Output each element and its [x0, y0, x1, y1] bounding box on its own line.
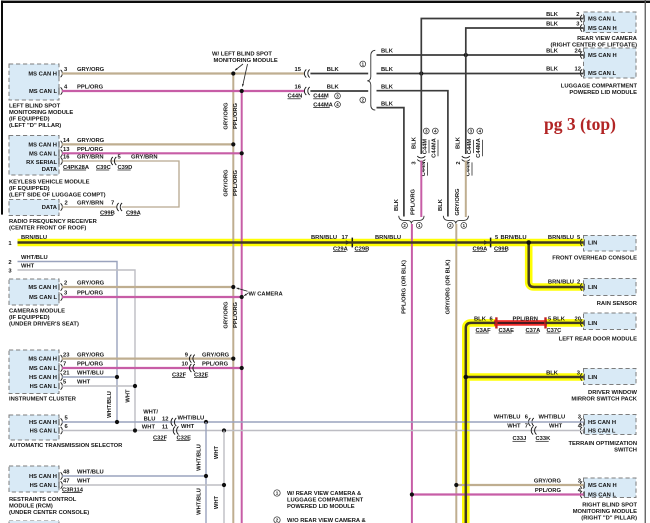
label C32F ATS	[153, 435, 168, 441]
module automatic transmission selector box	[9, 415, 59, 440]
label BLK 3 DWMSP	[546, 371, 581, 377]
wire WHT/BLU vertical x206	[205, 422, 207, 523]
svg-text:WHT: WHT	[77, 380, 91, 386]
label WHT wire3	[21, 263, 35, 269]
connector label C44N	[288, 94, 303, 100]
svg-text:21: 21	[63, 371, 70, 377]
brace option split	[367, 50, 375, 110]
label BLK row B	[381, 67, 394, 73]
svg-text:(IF EQUIPPED): (IF EQUIPPED)	[9, 315, 50, 321]
svg-text:2: 2	[576, 12, 579, 18]
svg-text:MS CAN H: MS CAN H	[28, 72, 57, 78]
label WHT/BLU ATS2	[178, 416, 205, 422]
svg-text:(CENTER FRONT OF ROOF): (CENTER FRONT OF ROOF)	[9, 225, 86, 231]
svg-text:TERRAIN OPTIMIZATION: TERRAIN OPTIMIZATION	[569, 441, 637, 447]
label GRY/ORG vertical low	[224, 301, 230, 329]
connector label C44MA	[313, 102, 340, 109]
svg-text:GRY/ORG: GRY/ORG	[77, 352, 105, 358]
svg-text:(IF EQUIPPED): (IF EQUIPPED)	[9, 186, 50, 192]
junction row B x421.8	[419, 71, 423, 75]
label pin 2 rain	[577, 280, 580, 286]
svg-text:7: 7	[63, 362, 66, 368]
label pin 5 C39D	[118, 155, 122, 161]
module left blind spot monitoring module box	[9, 64, 59, 100]
svg-text:MIRROR SWITCH PACK: MIRROR SWITCH PACK	[571, 397, 637, 403]
svg-text:2: 2	[577, 280, 580, 286]
page right border	[645, 0, 646, 523]
wire PPL/BRN highlighted red band	[494, 320, 547, 326]
module RBSM pin MS CAN L	[580, 491, 616, 499]
svg-text:BLK: BLK	[381, 84, 394, 90]
label pin 23	[63, 352, 70, 358]
label pin 16 KVM	[63, 155, 70, 161]
module LCPLM pin MS CAN L	[580, 69, 616, 77]
wire 3 WHT	[18, 270, 136, 431]
module TOS caption	[569, 441, 637, 454]
svg-text:AUTOMATIC TRANSMISSION SELECTO: AUTOMATIC TRANSMISSION SELECTOR	[9, 443, 123, 449]
label GRY/BRN after C39D	[131, 155, 158, 161]
wire PPL/ORG vertical bus	[241, 91, 243, 523]
svg-text:WHT: WHT	[214, 445, 220, 459]
connector C32 arcs ATS L	[173, 427, 178, 435]
label pin 6 TOS	[525, 414, 529, 420]
junction PPL/ORG at IC	[240, 366, 244, 370]
svg-text:GRY/ORG: GRY/ORG	[224, 169, 230, 197]
module RBSM caption	[573, 503, 638, 522]
label wire number 3	[8, 269, 12, 275]
svg-text:23: 23	[63, 352, 70, 358]
label pin 3 CAM	[64, 291, 68, 297]
svg-text:15: 15	[295, 67, 302, 73]
connector tick C99 yellow	[484, 238, 491, 248]
module LBSMM pin MS CAN H	[28, 70, 62, 78]
junction WHT at RCM	[222, 483, 226, 487]
svg-text:WHT/BLU: WHT/BLU	[539, 414, 566, 420]
label C99A yellow	[473, 246, 489, 252]
junction PPL/ORG at KVM	[240, 151, 244, 155]
connector C33 arcs H	[529, 418, 534, 426]
svg-text:SWITCH: SWITCH	[614, 448, 637, 454]
svg-text:BLK: BLK	[327, 85, 340, 91]
svg-text:WHT/BLU: WHT/BLU	[21, 255, 48, 261]
module TOS pin HS CAN L	[580, 427, 615, 435]
wire BLK LIN vertical core	[466, 323, 496, 523]
label PPL/ORG RBSM	[535, 488, 562, 494]
junction GRY/ORG at CAM	[231, 285, 235, 289]
svg-text:MS CAN L: MS CAN L	[588, 493, 616, 499]
svg-text:DATA: DATA	[42, 167, 58, 173]
svg-text:7: 7	[525, 423, 528, 429]
svg-text:GRY/ORG: GRY/ORG	[77, 67, 105, 73]
svg-text:GRY/ORG: GRY/ORG	[534, 479, 562, 485]
wire TOS HS CAN H right	[528, 421, 583, 423]
label WHT 11	[142, 424, 169, 430]
wire BLK to LRDM core	[546, 322, 584, 325]
module LRDM pin LIN	[580, 319, 597, 327]
svg-text:WHT/BLU: WHT/BLU	[77, 470, 104, 476]
label BLK row D	[381, 101, 394, 107]
wire ATS HS CAN L WHT	[62, 430, 531, 432]
label WHT/BLU RCM	[77, 470, 104, 476]
module restraints control module box	[9, 466, 59, 492]
svg-text:WHT/BLU: WHT/BLU	[196, 444, 202, 471]
svg-text:MS CAN H: MS CAN H	[588, 26, 617, 32]
label pin 3	[576, 22, 580, 28]
label pin 3	[64, 67, 68, 73]
wire CAM MS CAN H GRY/ORG	[62, 286, 233, 288]
label PPL/ORG vertical mid	[233, 169, 239, 196]
svg-text:HS CAN L: HS CAN L	[588, 429, 616, 435]
label WHT rot x218 a	[214, 445, 220, 459]
junction PPL/ORG at CAM	[240, 295, 244, 299]
wire GRY/ORG (OR BLK) vertical	[455, 224, 457, 523]
svg-text:POWERED LID MODULE: POWERED LID MODULE	[287, 504, 355, 510]
junction PPL/ORG bus at LBSMM L	[240, 89, 244, 93]
svg-text:17: 17	[342, 235, 348, 241]
svg-text:WHT/BLU: WHT/BLU	[178, 416, 205, 422]
module IC pin MS CAN H	[28, 355, 62, 363]
label C39D	[118, 165, 133, 171]
svg-text:12: 12	[575, 67, 581, 73]
wire BRN/BLU branch to rain sensor core	[529, 243, 584, 288]
wire IC HS CAN L WHT	[62, 385, 135, 387]
svg-text:(IF EQUIPPED): (IF EQUIPPED)	[9, 117, 50, 123]
label PPL/ORG CAM	[77, 291, 104, 297]
svg-text:WHT/: WHT/	[143, 410, 158, 416]
label wire number 2	[8, 260, 11, 266]
junction WHT/BLU x206	[204, 420, 208, 424]
label pin 5 yellow	[495, 235, 499, 241]
svg-text:BRN/BLU: BRN/BLU	[21, 235, 47, 241]
label GRY/ORG IC	[77, 352, 105, 358]
label WHT RCM	[77, 479, 91, 485]
wire IC HS CAN H WHT/BLU	[62, 376, 117, 378]
svg-text:GRY/ORG: GRY/ORG	[224, 102, 230, 130]
label C44MA V2	[476, 128, 483, 158]
svg-text:MONITORING MODULE: MONITORING MODULE	[573, 509, 637, 515]
label C3AE	[499, 328, 515, 334]
module FOC pin LIN	[580, 239, 597, 247]
svg-text:PPL/ORG (OR BLK): PPL/ORG (OR BLK)	[401, 260, 407, 314]
label WHT IC	[77, 380, 91, 386]
connector C33 arcs L	[531, 427, 536, 435]
connector C32 arcs ATS H	[171, 418, 176, 426]
svg-text:CAMERAS MODULE: CAMERAS MODULE	[9, 308, 65, 314]
svg-text:LUGGAGE COMPARTMENT: LUGGAGE COMPARTMENT	[287, 498, 364, 504]
connector label C44M	[313, 93, 340, 100]
wire KVM MS CAN H GRY/ORG	[62, 143, 233, 145]
svg-text:WHT: WHT	[142, 424, 156, 430]
label WHT rot x218 b	[214, 495, 220, 509]
label WHT/BLU IC	[77, 371, 104, 377]
svg-text:RESTRAINTS CONTROL: RESTRAINTS CONTROL	[9, 497, 77, 503]
label GRY/BRN KVM	[77, 155, 104, 161]
svg-text:BRN/BLU: BRN/BLU	[311, 235, 337, 241]
wire TOS HS CAN L right	[531, 430, 584, 432]
svg-text:48: 48	[63, 470, 70, 476]
module DWMSP pin LIN	[580, 373, 597, 381]
svg-text:WHT: WHT	[126, 389, 132, 403]
svg-text:RIGHT BLIND SPOT: RIGHT BLIND SPOT	[582, 503, 637, 509]
svg-text:13: 13	[63, 147, 70, 153]
wire BLK to RVC pin2	[421, 19, 583, 74]
svg-text:MS CAN L: MS CAN L	[29, 366, 57, 372]
label pin 16	[295, 85, 302, 91]
svg-text:GRY/ORG: GRY/ORG	[77, 138, 105, 144]
label pin 2 V2	[456, 161, 462, 164]
label pin 24	[575, 49, 582, 55]
label C32E IC	[194, 372, 209, 378]
svg-text:MS CAN H: MS CAN H	[588, 483, 617, 489]
label C32E ATS	[177, 435, 192, 441]
svg-text:HS CAN L: HS CAN L	[30, 483, 58, 489]
label BLK row15	[327, 67, 340, 73]
wire ATS HS CAN H WHT/BLU	[62, 421, 529, 423]
svg-text:GRY/ORG (OR BLK): GRY/ORG (OR BLK)	[446, 260, 452, 315]
label GRY/ORG	[77, 67, 105, 73]
module CAM caption	[9, 308, 79, 327]
svg-text:MS CAN H: MS CAN H	[28, 143, 57, 149]
label BLK V3	[438, 198, 444, 211]
wire GRY/ORG to RBSM	[456, 484, 583, 486]
label BLK near LCPLM L	[546, 67, 559, 73]
wire CAM MS CAN L PPL/ORG	[62, 296, 242, 298]
module CAM pin MS CAN H	[28, 283, 62, 291]
junction GRY/ORG bus at LBSMM H	[231, 71, 235, 75]
svg-text:WHT/BLU: WHT/BLU	[77, 371, 104, 377]
svg-text:LIN: LIN	[588, 285, 597, 291]
label pin 6 ATS	[65, 424, 69, 430]
svg-text:RADIO FREQUENCY RECEIVER: RADIO FREQUENCY RECEIVER	[9, 219, 98, 225]
svg-text:BLK: BLK	[327, 67, 340, 73]
label C29B	[355, 246, 370, 252]
svg-text:MS CAN H: MS CAN H	[28, 285, 57, 291]
svg-text:WHT: WHT	[21, 263, 35, 269]
svg-text:WHT: WHT	[507, 423, 521, 429]
svg-text:BRN/BLU: BRN/BLU	[548, 280, 574, 286]
label C33J	[513, 436, 527, 442]
svg-text:11: 11	[162, 424, 169, 430]
label BLK V4	[394, 198, 400, 211]
label BLU 12	[144, 417, 169, 423]
junction WHT at IC	[133, 384, 137, 388]
svg-text:BLK: BLK	[394, 198, 400, 211]
label pin 3 V1	[411, 161, 417, 165]
wire PPL/ORG to RBSM	[412, 493, 584, 495]
svg-text:PPL/ORG: PPL/ORG	[233, 301, 239, 328]
module rear view camera box	[584, 12, 637, 33]
wire BLK row D	[377, 108, 404, 217]
label GRY/ORG vertical mid	[224, 169, 230, 197]
module left rear door module box	[584, 313, 637, 330]
wire RCM HS CAN H WHT/BLU	[62, 475, 206, 477]
label GRY/ORG V2	[455, 188, 461, 216]
module LBSMM pin MS CAN L	[29, 87, 62, 95]
connector tick C29	[346, 238, 353, 248]
label BLK RVC2	[546, 12, 559, 18]
svg-text:GRY/BRN: GRY/BRN	[77, 155, 104, 161]
svg-text:C44MA: C44MA	[476, 137, 482, 157]
svg-text:10: 10	[182, 362, 188, 368]
label BRN/BLU to rain	[548, 280, 574, 286]
label pin 2	[576, 12, 579, 18]
svg-text:GRY/ORG: GRY/ORG	[202, 352, 230, 358]
svg-text:MS CAN L: MS CAN L	[588, 71, 616, 77]
svg-text:PPL/ORG: PPL/ORG	[77, 362, 104, 368]
svg-text:C44M: C44M	[422, 139, 428, 155]
label C29A	[333, 246, 349, 252]
junction LIN splice dot	[526, 240, 531, 245]
svg-text:WHT/BLU: WHT/BLU	[107, 391, 113, 418]
svg-text:LIN: LIN	[588, 375, 597, 381]
label C44N V2	[465, 162, 472, 177]
label BRN/BLU right of C99	[501, 235, 527, 241]
module radio frequency receiver box	[9, 200, 59, 216]
label wire number 1	[8, 241, 12, 247]
label C44N V1	[421, 162, 428, 177]
module keyless vehicle module box	[9, 136, 59, 176]
label GRY/ORG (OR BLK)	[446, 260, 452, 315]
svg-text:RX SERIAL: RX SERIAL	[26, 160, 57, 166]
wire GRY/ORG vertical bus	[232, 74, 234, 523]
label C37A	[526, 328, 542, 334]
wire BLK to RVC pin3	[466, 28, 584, 55]
wire KVM RX SERIAL DATA GRY/BRN loop	[62, 161, 179, 207]
junction WHT wire3 end	[133, 428, 137, 432]
label pin 5 IC	[63, 380, 67, 386]
label pin 9	[185, 352, 189, 358]
label WHT/BLU rot x200 a	[196, 444, 202, 471]
label WHT/ wrap	[143, 410, 158, 416]
module IC pin HS CAN H	[29, 373, 62, 381]
svg-text:W/ REAR VIEW CAMERA &: W/ REAR VIEW CAMERA &	[287, 491, 361, 497]
note w/ camera	[237, 288, 284, 298]
module TOS pin HS CAN H	[580, 418, 616, 426]
label PPL/BRN	[513, 317, 538, 323]
svg-text:MS CAN L: MS CAN L	[29, 89, 57, 95]
svg-text:POWERED LID MODULE: POWERED LID MODULE	[569, 90, 637, 96]
label PPL/ORG KVM	[77, 147, 104, 153]
module RFR pin DATA	[42, 203, 63, 211]
footnote option 2	[274, 517, 366, 523]
wire IC MS CAN L PPL/ORG	[62, 367, 242, 369]
connector C44 arcs row15	[304, 70, 309, 78]
wire BLK row C	[377, 91, 448, 217]
module RVC pin MS CAN L	[580, 15, 616, 23]
connector C39 arcs	[111, 157, 116, 165]
wire GRY/ORG V2 lower	[465, 161, 467, 218]
module KVM pin MS CAN H	[28, 141, 62, 149]
junction WHT x224	[222, 428, 226, 432]
module KVM pin RX SERIAL DATA	[26, 157, 62, 172]
label C44M V1	[422, 128, 429, 154]
svg-text:GRY/BRN: GRY/BRN	[131, 155, 158, 161]
svg-text:LIN: LIN	[588, 241, 597, 247]
svg-text:LEFT BLIND SPOT: LEFT BLIND SPOT	[9, 104, 61, 110]
svg-text:WHT: WHT	[549, 423, 563, 429]
label C99A	[126, 210, 142, 216]
svg-text:BRN/BLU: BRN/BLU	[548, 235, 574, 241]
svg-text:MS CAN L: MS CAN L	[29, 151, 57, 157]
svg-text:PPL/ORG: PPL/ORG	[535, 488, 562, 494]
junction WHT/BLU at IC	[115, 375, 119, 379]
module ATS pin HS CAN H	[29, 418, 62, 426]
svg-text:16: 16	[63, 155, 70, 161]
module ATS pin HS CAN L	[30, 427, 63, 435]
label pin 7 RFR	[111, 201, 114, 207]
label BRN/BLU mid2	[375, 235, 401, 241]
label C4PK28A	[63, 165, 90, 171]
label pin 21	[63, 371, 70, 377]
label C44MA V1	[431, 128, 438, 158]
svg-text:RAIN SENSOR: RAIN SENSOR	[597, 301, 638, 307]
label WHT ATS2	[181, 424, 195, 430]
label PPL/ORG IC2	[202, 362, 229, 368]
label PPL/ORG vertical top	[233, 102, 239, 129]
svg-text:BLK: BLK	[381, 49, 394, 55]
svg-text:PPL/ORG: PPL/ORG	[77, 291, 104, 297]
option circle 2 top	[360, 97, 366, 103]
svg-text:HS CAN H: HS CAN H	[588, 420, 616, 426]
module DWMSP caption	[571, 390, 637, 403]
svg-text:W/ CAMERA: W/ CAMERA	[249, 291, 284, 297]
connector C32 arcs H	[190, 355, 195, 363]
svg-text:BLK: BLK	[455, 136, 461, 149]
label pin 5 ATS	[65, 416, 69, 422]
label C3AF	[476, 328, 492, 334]
label BLK near LCPLM H	[546, 49, 559, 55]
label BLK row16	[327, 85, 340, 91]
svg-text:WHT: WHT	[77, 479, 91, 485]
module RFR caption	[9, 219, 98, 231]
footnote option 1	[274, 490, 364, 510]
module RBSM pin MS CAN H	[580, 481, 616, 489]
svg-text:DRIVER WINDOW: DRIVER WINDOW	[588, 390, 637, 396]
svg-text:BLK: BLK	[546, 49, 559, 55]
module RCM pin HS CAN L	[30, 481, 63, 489]
label BLK 6	[474, 317, 494, 323]
label BLK V1	[411, 136, 417, 149]
svg-text:2: 2	[64, 281, 67, 287]
wire BRN/BLU highlighted yellow band	[18, 243, 584, 288]
svg-text:HS CAN H: HS CAN H	[29, 375, 57, 381]
svg-text:PPL/ORG: PPL/ORG	[77, 85, 104, 91]
svg-text:MODULE (RCM): MODULE (RCM)	[9, 503, 53, 509]
module instrument cluster box	[9, 350, 59, 394]
junction WHT/BLU wire2 end	[115, 420, 119, 424]
svg-text:pg 3 (top): pg 3 (top)	[544, 114, 616, 134]
label pin 7 TOS	[525, 423, 528, 429]
svg-text:BLK: BLK	[411, 136, 417, 149]
svg-text:7: 7	[111, 201, 114, 207]
junction PPL/ORG OR BLK at RBSM	[410, 492, 414, 496]
module RVC pin MS CAN H	[580, 24, 616, 32]
svg-text:14: 14	[63, 138, 70, 144]
module luggage compartment powered lid module box	[584, 48, 637, 78]
label WHT/BLU rot x111	[107, 391, 113, 418]
svg-text:MS CAN H: MS CAN H	[28, 357, 57, 363]
svg-text:GRY/BRN: GRY/BRN	[77, 201, 104, 207]
svg-text:LEFT REAR DOOR MODULE: LEFT REAR DOOR MODULE	[559, 337, 637, 343]
label BRN/BLU to FOC	[548, 235, 574, 241]
wire 2 WHT/BLU	[18, 262, 118, 423]
label C99B	[100, 210, 115, 216]
label BLK RVC3	[546, 22, 559, 28]
svg-text:MS CAN H: MS CAN H	[588, 53, 617, 59]
label WHT/BLU wire2	[21, 255, 48, 261]
wire BLK row A	[377, 54, 584, 56]
svg-text:1: 1	[276, 491, 279, 496]
